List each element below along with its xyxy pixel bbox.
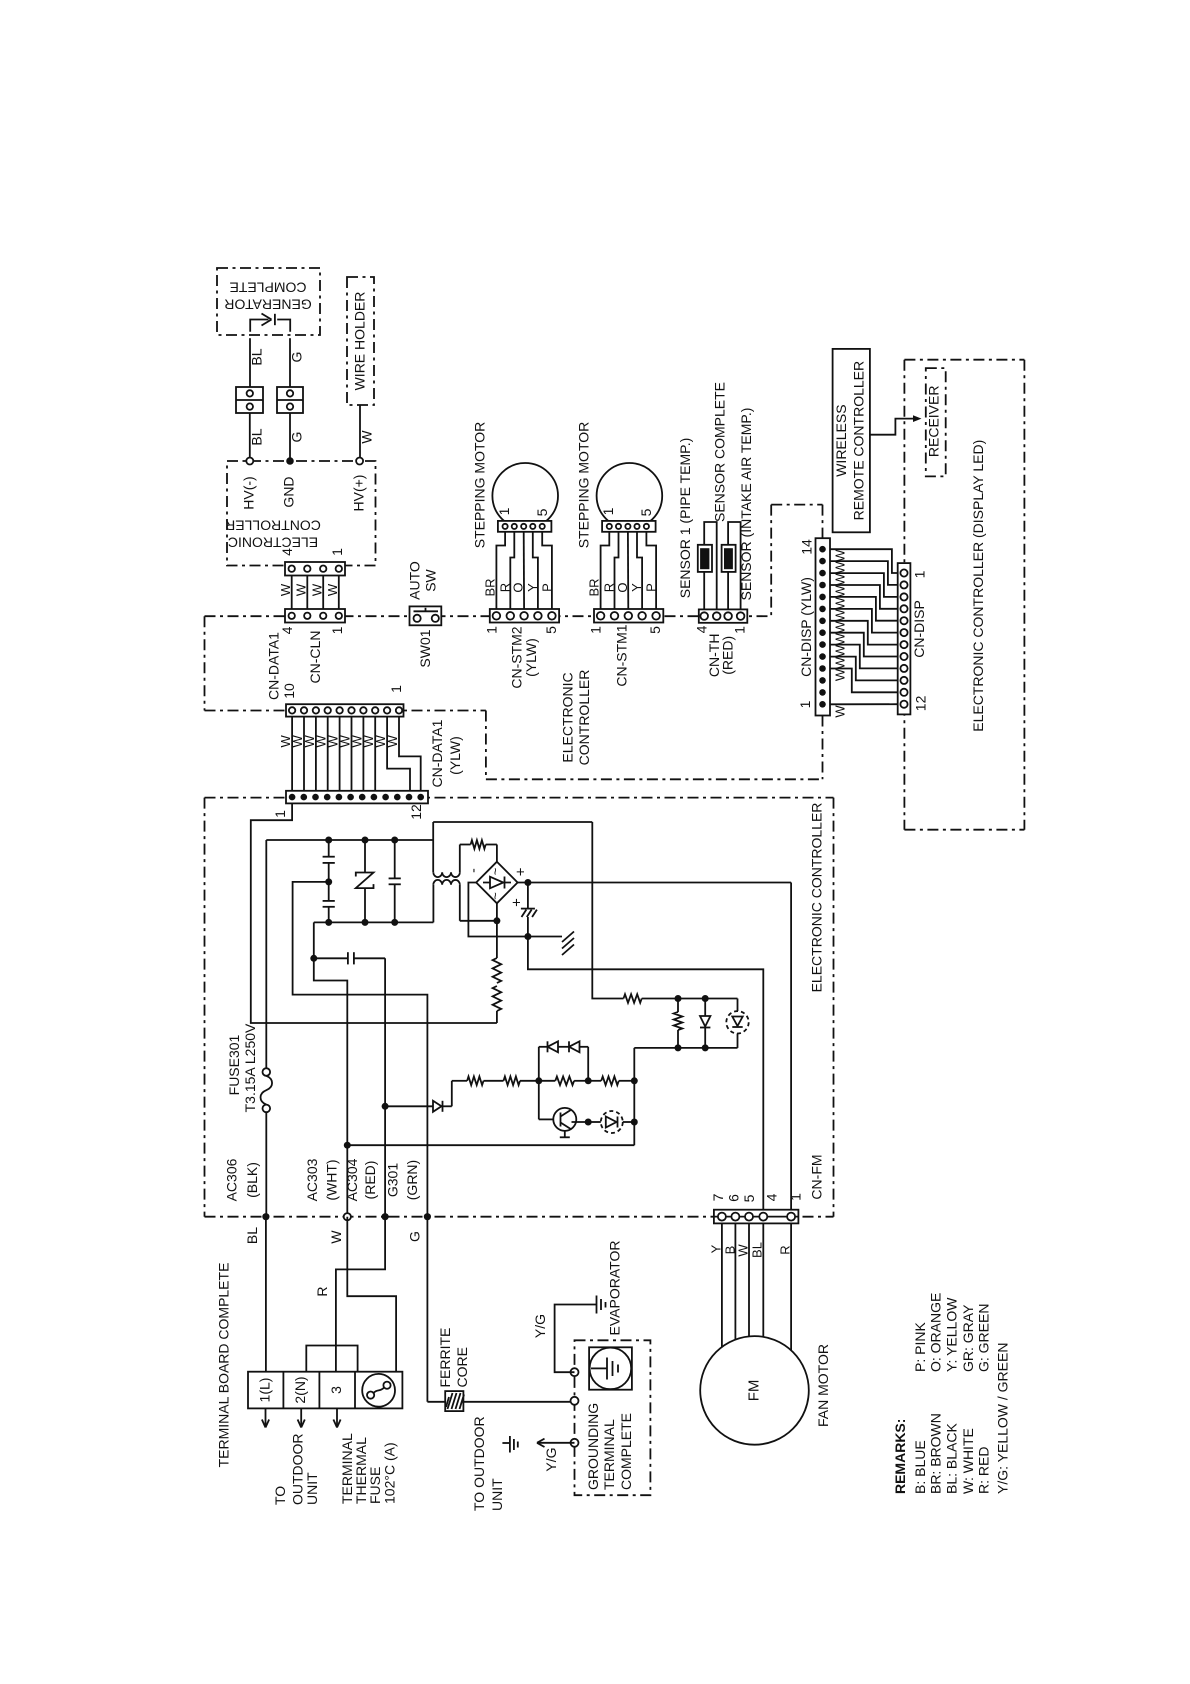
receiver dashed box <box>926 368 946 476</box>
electronic controller (top) dashed box <box>227 461 376 566</box>
svg-text:CONTROLLER: CONTROLLER <box>576 670 592 766</box>
node chain-b1 <box>535 1077 542 1084</box>
wire mid tap to G301 run <box>293 882 428 1217</box>
label FAN MOTOR <box>815 1344 831 1427</box>
wire +V to CN-FM pin1 <box>790 883 792 1213</box>
thermistor SENSOR 1 (pipe temp) <box>698 545 712 572</box>
wire G generator to splice <box>289 338 291 387</box>
svg-text:FAN MOTOR: FAN MOTOR <box>815 1344 831 1427</box>
label WIRELESS REMOTE CONTROLLER <box>833 361 867 520</box>
svg-text:BR: BROWN: BR: BROWN <box>928 1413 944 1494</box>
legend color codes left <box>912 1343 1011 1494</box>
svg-text:W: W <box>325 583 340 596</box>
svg-text:T3.15A L250V: T3.15A L250V <box>242 1023 258 1112</box>
capacitor C3 <box>389 840 401 922</box>
label SENSOR (INTAKE AIR TEMP.) <box>738 408 754 601</box>
label W <box>359 430 375 444</box>
connector CN-STM1 (CN-STM1) <box>594 609 663 623</box>
transformer T1 secondary <box>433 822 460 877</box>
svg-text:STEPPING MOTOR: STEPPING MOTOR <box>471 422 487 549</box>
connector CN-FM <box>714 1210 799 1224</box>
label HV(-) <box>240 476 256 509</box>
wire BL generator to splice <box>249 338 251 387</box>
svg-text:AC303: AC303 <box>304 1158 320 1201</box>
svg-text:CORE: CORE <box>454 1347 470 1387</box>
label ELECTRONIC CONTROLLER (DISPLAY LED) <box>970 440 986 732</box>
pin gnd1 <box>571 1368 579 1376</box>
svg-text:BR: BR <box>483 578 498 596</box>
svg-text:BL: BL <box>244 1227 260 1244</box>
resistor R7 <box>504 1077 521 1086</box>
svg-text:1: 1 <box>797 700 813 708</box>
label HV(+) <box>351 475 367 512</box>
resistor R5 <box>674 999 683 1048</box>
svg-text:GENERATOR: GENERATOR <box>224 297 311 313</box>
svg-text:1: 1 <box>388 685 404 693</box>
node bottom-C2 <box>325 919 332 926</box>
optocoupler PC1 (LED) <box>726 999 748 1048</box>
connector CN-STM2 (CN-STM2) <box>490 609 559 623</box>
pin HV(+) <box>356 458 363 465</box>
svg-text:6: 6 <box>726 1194 742 1202</box>
svg-text:GND: GND <box>281 476 297 507</box>
wire Y/G to evaporator <box>555 1305 596 1373</box>
pin HV(-) <box>246 458 253 465</box>
wire fuse to AC306 node <box>265 1112 267 1217</box>
svg-text:O: ORANGE: O: ORANGE <box>928 1293 944 1372</box>
label TERMINAL BOARD COMPLETE <box>215 1263 231 1468</box>
svg-text:GR: GRAY: GR: GRAY <box>960 1304 976 1372</box>
varistor Z <box>356 840 374 922</box>
connector CN-CLN upper (board side) <box>285 562 345 576</box>
svg-text:4: 4 <box>764 1193 780 1201</box>
label ELECTRONIC CONTROLLER (rotated 180) <box>225 518 321 551</box>
svg-text:AC306: AC306 <box>224 1158 240 1201</box>
wire right rail <box>592 822 623 999</box>
labels 1 5 (CN-STM1) <box>588 626 664 634</box>
wire G to grounding terminal <box>427 1217 574 1402</box>
label TO OUTDOOR UNIT <box>272 1433 320 1505</box>
switch SW01 AUTO SW <box>410 606 442 625</box>
svg-text:W: W <box>833 573 848 586</box>
svg-text:CN-CLN: CN-CLN <box>307 631 323 684</box>
svg-text:5: 5 <box>741 1194 757 1202</box>
ground symbol in square <box>589 1347 632 1389</box>
label TO OUTDOOR UNIT (2) <box>471 1416 505 1511</box>
arrow to outdoor 3 <box>333 1408 340 1427</box>
svg-text:BL: BL <box>249 348 265 365</box>
svg-text:P: P <box>540 583 555 592</box>
wire W to thermal fuse <box>347 1217 396 1372</box>
label 2(N) <box>292 1376 308 1403</box>
display controller dashed box <box>904 360 1024 830</box>
svg-text:COMPLETE: COMPLETE <box>229 280 306 296</box>
svg-text:(WHT): (WHT) <box>323 1159 339 1200</box>
svg-text:W: W <box>833 620 848 633</box>
labels 1 5 (CN-STM2) <box>483 626 559 634</box>
wire opto top rail <box>678 998 738 1000</box>
capacitor C5 electrolytic <box>521 883 537 937</box>
svg-text:GROUNDING: GROUNDING <box>585 1403 601 1490</box>
svg-text:12: 12 <box>408 804 424 820</box>
label G <box>406 1231 422 1242</box>
svg-text:1(L): 1(L) <box>257 1378 273 1403</box>
svg-text:CONTROLLER: CONTROLLER <box>225 518 321 534</box>
wire W holder to HV(+) <box>359 405 361 458</box>
svg-text:UNIT: UNIT <box>489 1478 505 1511</box>
wire BL to terminal 1(L) <box>265 1217 267 1372</box>
label 12 <box>408 804 424 820</box>
svg-text:BR: BR <box>587 578 602 596</box>
wire Y/G to outdoor arrow <box>537 1439 575 1447</box>
node bottom-Z <box>362 919 369 926</box>
label - (bridge) <box>465 868 481 873</box>
node AC304 <box>382 1213 389 1220</box>
label CN-STM2 (YLW) <box>509 626 539 688</box>
capacitor C2 <box>323 901 335 923</box>
wire R to terminal 3 <box>336 1217 385 1372</box>
svg-text:Y/G: Y/G <box>532 1314 548 1338</box>
legend color codes right <box>912 1293 992 1372</box>
label CN-CLN <box>307 631 323 684</box>
svg-text:UNIT: UNIT <box>304 1472 320 1505</box>
ground evaporator <box>597 1296 606 1314</box>
label 1 <box>797 700 813 708</box>
node bot-R5 <box>675 1044 682 1051</box>
svg-text:COMPLETE: COMPLETE <box>618 1413 634 1490</box>
svg-text:1: 1 <box>496 507 512 515</box>
svg-text:G: GREEN: G: GREEN <box>976 1304 992 1372</box>
connector CN-DISP (YLW) 14 pin <box>816 538 831 715</box>
label CN-DATA1 (YLW) <box>429 719 463 787</box>
label + (C5) <box>509 898 526 907</box>
svg-text:G: G <box>289 352 305 363</box>
node mid C1C2 <box>325 878 332 885</box>
svg-text:HV(+): HV(+) <box>351 475 367 512</box>
capacitor C1 branch <box>323 840 335 901</box>
label 4 <box>279 626 295 634</box>
svg-text:STEPPING MOTOR: STEPPING MOTOR <box>576 422 592 549</box>
node AC303 (open) <box>344 1213 351 1220</box>
labels Y B W BL R <box>709 1242 793 1258</box>
svg-text:SW01: SW01 <box>417 629 433 667</box>
svg-text:ELECTRONIC CONTROLLER (DISPLAY: ELECTRONIC CONTROLLER (DISPLAY LED) <box>970 440 986 732</box>
wires CN-FM to fan motor <box>722 1223 791 1350</box>
svg-text:W: W <box>833 656 848 669</box>
label R <box>314 1286 330 1296</box>
svg-text:WIRE HOLDER: WIRE HOLDER <box>352 292 368 391</box>
wire G splice to GND <box>289 413 291 458</box>
svg-text:BL: BLACK: BL: BLACK <box>943 1423 959 1494</box>
zener pair D4 D5 <box>539 1041 588 1081</box>
wire chain drop left <box>451 1081 453 1107</box>
svg-text:W: W <box>833 597 848 610</box>
svg-text:CN-DISP (YLW): CN-DISP (YLW) <box>798 577 814 677</box>
label FERRITE CORE <box>437 1328 470 1388</box>
wires motor to connector (CN-STM2) <box>496 532 552 612</box>
wire AC line rail <box>266 839 433 841</box>
ground to outdoor <box>502 1436 517 1453</box>
node R4-R5 <box>675 995 682 1002</box>
label EVAPORATOR <box>607 1241 623 1336</box>
svg-text:SENSOR COMPLETE: SENSOR COMPLETE <box>712 382 728 522</box>
wire +V bus <box>518 882 792 884</box>
svg-text:1: 1 <box>272 810 288 818</box>
wire bottom rail to AC303 <box>314 922 348 1216</box>
wire neutral bottom rail <box>314 921 434 923</box>
pin gnd2 <box>571 1397 579 1405</box>
svg-text:W: W <box>833 705 848 718</box>
label TERMINAL THERMAL FUSE 102C <box>339 1433 398 1504</box>
resistor R8 <box>555 1077 574 1086</box>
labels W wires <box>833 549 848 718</box>
svg-text:P: P <box>644 583 659 592</box>
svg-text:Y: YELLOW: Y: YELLOW <box>943 1297 959 1372</box>
svg-text:~: ~ <box>488 892 503 900</box>
resistor R2 <box>493 958 502 983</box>
svg-text:CN-FM: CN-FM <box>809 1154 825 1199</box>
label FUSE301 T3.15A L250V <box>226 1023 258 1112</box>
svg-text:G: G <box>406 1231 422 1242</box>
optocoupler PC2 (photo diode) <box>588 1111 634 1133</box>
svg-text:CN-DATA1: CN-DATA1 <box>429 719 445 787</box>
label 1 <box>732 626 748 634</box>
bridge rectifier D1 <box>476 862 517 904</box>
svg-text:BL: BL <box>750 1242 765 1258</box>
svg-text:W: W <box>833 549 848 562</box>
svg-text:1: 1 <box>588 626 604 634</box>
arrow to outdoor 1 <box>262 1408 269 1427</box>
node +V <box>524 879 531 886</box>
svg-text:4: 4 <box>693 625 709 633</box>
terminal board complete <box>248 1372 402 1409</box>
svg-text:TERMINAL BOARD COMPLETE: TERMINAL BOARD COMPLETE <box>215 1263 231 1468</box>
svg-text:(YLW): (YLW) <box>447 736 463 775</box>
svg-text:P: PINK: P: PINK <box>912 1322 928 1372</box>
svg-text:AC304: AC304 <box>344 1158 360 1201</box>
svg-text:+: + <box>509 898 526 907</box>
label CN-DISP <box>911 600 927 658</box>
svg-text:(GRN): (GRN) <box>404 1160 420 1200</box>
transformer T1 primary <box>433 880 497 923</box>
wire base chain <box>452 1080 635 1082</box>
svg-text:(YLW): (YLW) <box>523 638 539 677</box>
label BL <box>249 428 265 445</box>
svg-text:1: 1 <box>788 1193 804 1201</box>
label + (bridge) <box>513 867 530 876</box>
svg-text:102°C (A): 102°C (A) <box>381 1442 397 1504</box>
terminal thermal fuse <box>362 1374 395 1407</box>
svg-text:1: 1 <box>329 626 345 634</box>
label 10 <box>281 683 297 699</box>
label AC306 (BLK) <box>224 1158 260 1201</box>
svg-text:G301: G301 <box>385 1163 401 1197</box>
node AC303 tap <box>344 1142 351 1149</box>
labels BR R O Y P (CN-STM1) <box>587 578 659 596</box>
thermistor SENSOR (intake air temp) <box>722 545 736 572</box>
svg-text:ELECTRONIC CONTROLLER: ELECTRONIC CONTROLLER <box>808 803 824 993</box>
svg-text:(RED): (RED) <box>719 636 735 675</box>
wire opto bottom rail <box>634 1047 737 1049</box>
svg-text:W: W <box>328 1230 344 1244</box>
label RECEIVER <box>926 386 942 458</box>
wire holder box <box>347 277 374 405</box>
svg-text:B: BLUE: B: BLUE <box>912 1440 928 1494</box>
wireless remote controller box <box>833 349 870 532</box>
wire AC306 drop to fuse <box>265 840 267 1068</box>
connector CN-CLN lower <box>285 609 345 623</box>
connector CN-TH <box>699 609 748 622</box>
resistor R9 <box>601 1077 619 1086</box>
svg-text:REMOTE CONTROLLER: REMOTE CONTROLLER <box>851 361 867 520</box>
svg-text:~: ~ <box>488 867 503 875</box>
svg-text:W: W <box>833 632 848 645</box>
label 4 <box>693 625 709 633</box>
svg-text:W: W <box>833 668 848 681</box>
labels W wires <box>278 735 400 748</box>
svg-text:SW: SW <box>423 568 439 591</box>
label GROUNDING TERMINAL COMPLETE <box>585 1403 634 1490</box>
svg-text:1: 1 <box>912 570 928 578</box>
svg-text:(BLK): (BLK) <box>244 1162 260 1198</box>
node bot-D2 <box>702 1044 709 1051</box>
label 1 <box>912 570 928 578</box>
wire arrow wireless to receiver <box>870 415 922 435</box>
label AUTO SW <box>407 561 439 600</box>
node C5-gnd <box>524 933 531 940</box>
svg-text:TERMINAL: TERMINAL <box>601 1419 617 1490</box>
connector CN-DATA1 (10 pin) <box>286 704 404 716</box>
ferrite core <box>445 1391 464 1411</box>
label FM <box>746 1380 763 1402</box>
labels 1 5 (CN-STM1) <box>600 507 654 516</box>
label CN-DATA1 <box>266 632 282 700</box>
stepping motor body (CN-STM2) <box>492 463 558 532</box>
node G301 <box>424 1213 431 1220</box>
label 1 <box>272 810 288 818</box>
labels 7 6 5 4 1 <box>710 1193 804 1203</box>
connector CN-DISP 12 pin <box>898 563 911 714</box>
svg-text:SENSOR (INTAKE AIR TEMP.): SENSOR (INTAKE AIR TEMP.) <box>738 408 754 601</box>
label W <box>328 1230 344 1244</box>
label WIRE HOLDER <box>352 292 368 391</box>
svg-text:W: W <box>310 583 325 596</box>
svg-text:+: + <box>513 867 530 876</box>
node bridge-transformer return <box>493 917 500 924</box>
svg-text:G: G <box>289 432 305 443</box>
label G <box>289 432 305 443</box>
resistor R4 <box>624 994 679 1003</box>
label ELECTRONIC CONTROLLER (middle) <box>560 670 593 766</box>
stepping motor body (CN-STM1) <box>597 463 663 532</box>
label 1 <box>329 626 345 634</box>
label AC303 (WHT) <box>304 1158 340 1201</box>
svg-text:W: W <box>833 644 848 657</box>
svg-text:AUTO: AUTO <box>407 561 423 600</box>
node chain-b2 <box>585 1077 592 1084</box>
wires CN-DISP(YLW) to CN-DISP <box>830 549 898 704</box>
label CN-DISP (YLW) <box>798 577 814 677</box>
labels W wires <box>278 583 340 596</box>
label Y/G <box>543 1447 559 1471</box>
wire to chassis ground <box>528 936 562 938</box>
svg-text:WIRELESS: WIRELESS <box>833 404 849 476</box>
resistor R6 <box>467 1077 483 1086</box>
label 12 <box>913 695 929 711</box>
label 1(L) <box>257 1378 273 1403</box>
svg-text:5: 5 <box>534 508 550 516</box>
node rail-C1 <box>325 837 332 844</box>
label 3 <box>328 1386 344 1394</box>
node GND <box>286 457 294 465</box>
main controller dashed box <box>205 798 834 1217</box>
svg-text:EVAPORATOR: EVAPORATOR <box>607 1241 623 1336</box>
node rail-C3 <box>391 837 398 844</box>
node rail-Z <box>362 837 369 844</box>
node bottom-C3 <box>391 919 398 926</box>
svg-text:Y/G: YELLOW / GREEN: Y/G: YELLOW / GREEN <box>995 1343 1011 1494</box>
node opto2-right <box>631 1119 638 1126</box>
label REMARKS <box>892 1419 908 1494</box>
svg-text:O: O <box>511 582 526 592</box>
grounding terminal dashed box <box>575 1340 651 1495</box>
label 4 <box>279 548 295 556</box>
labels 1 5 (CN-STM2) <box>496 507 550 516</box>
svg-text:FERRITE: FERRITE <box>437 1328 453 1388</box>
wire sensor loop 2 <box>728 522 741 609</box>
labels BR R O Y P (CN-STM2) <box>483 578 555 596</box>
generator box GENERATOR COMPLETE <box>217 268 320 335</box>
diode D2 <box>700 999 710 1048</box>
svg-text:W: WHITE: W: WHITE <box>960 1428 976 1494</box>
svg-text:W: W <box>736 1244 751 1257</box>
svg-text:1: 1 <box>600 507 616 515</box>
label GENERATOR COMPLETE (rotated 180) <box>224 280 311 313</box>
svg-text:CN-DISP: CN-DISP <box>911 600 927 658</box>
wire sensor loop 1 <box>704 522 717 609</box>
svg-text:2(N): 2(N) <box>292 1376 308 1403</box>
svg-text:ELECTRONIC: ELECTRONIC <box>228 535 318 551</box>
connector CN-DATA1 (YLW) 12 pin <box>286 791 428 804</box>
transistor Q1 <box>539 1081 588 1138</box>
svg-text:W: W <box>278 583 293 596</box>
svg-text:SENSOR 1 (PIPE TEMP.): SENSOR 1 (PIPE TEMP.) <box>677 438 693 599</box>
resistor R3 <box>493 986 502 1023</box>
resistor R1 (bridge top loop) <box>460 840 497 862</box>
svg-text:REMARKS:: REMARKS: <box>892 1419 908 1494</box>
node top-D2 <box>702 995 709 1002</box>
label ELECTRONIC CONTROLLER (main) <box>808 803 824 993</box>
label CN-FM <box>809 1154 825 1199</box>
label 1 <box>329 548 345 556</box>
node C4 tap <box>310 955 317 962</box>
svg-text:3: 3 <box>328 1386 344 1394</box>
wire DC bus to CN-FM pin4 <box>528 937 763 1213</box>
svg-text:R: RED: R: RED <box>976 1447 992 1494</box>
label GND <box>281 476 297 507</box>
diode D3 (from AC304) <box>385 1101 452 1112</box>
splice connector right (G) <box>277 387 303 413</box>
svg-text:FM: FM <box>746 1380 763 1402</box>
svg-text:ELECTRONIC: ELECTRONIC <box>560 672 576 762</box>
fan motor FM <box>700 1336 809 1445</box>
wire bridge minus loop <box>468 883 528 937</box>
node Q1-PC2 <box>585 1119 592 1126</box>
svg-text:W: W <box>833 585 848 598</box>
wire emitter return <box>347 1144 634 1146</box>
wire BL splice to HV(-) <box>249 413 251 458</box>
terminal board link 2(N)-fuse <box>306 1346 357 1372</box>
